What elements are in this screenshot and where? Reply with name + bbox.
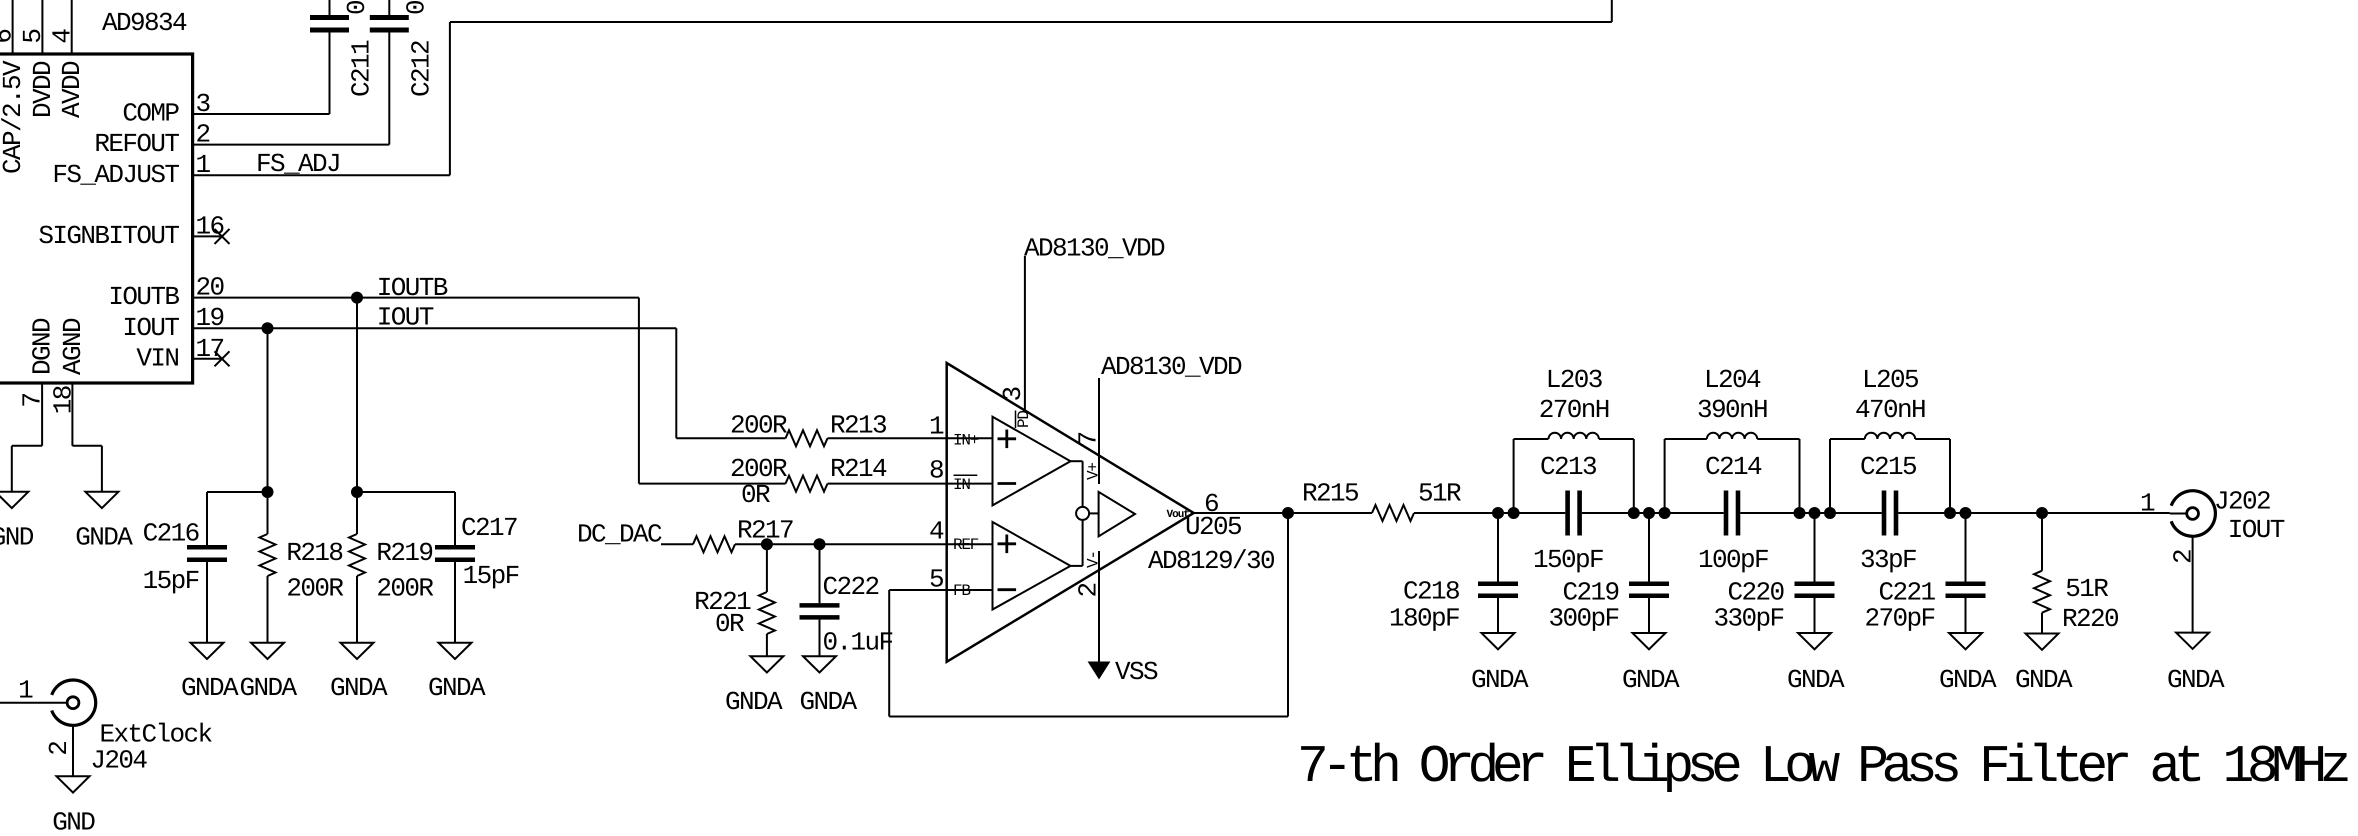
svg-text:IN: IN [953,476,970,494]
svg-text:R215: R215 [1302,479,1358,509]
svg-text:51R: 51R [2065,574,2108,604]
svg-text:IOUT: IOUT [2228,515,2285,545]
svg-text:470nH: 470nH [1855,395,1925,425]
svg-text:C213: C213 [1540,452,1596,482]
svg-text:PD: PD [1015,411,1033,428]
svg-text:6: 6 [0,30,18,44]
svg-text:0.1uF: 0.1uF [342,0,372,15]
svg-text:1: 1 [18,676,33,706]
svg-text:150pF: 150pF [1533,545,1603,575]
svg-text:AD8130_VDD: AD8130_VDD [1101,352,1242,382]
svg-text:U205: U205 [1185,512,1241,542]
svg-text:C214: C214 [1705,452,1762,482]
svg-text:V+: V+ [1085,463,1103,480]
svg-text:2: 2 [1073,583,1103,597]
svg-text:FB: FB [953,582,970,600]
svg-text:GNDA: GNDA [428,673,486,703]
svg-text:GNDA: GNDA [2167,665,2225,695]
svg-text:R217: R217 [737,516,793,546]
svg-text:AGND: AGND [58,318,88,375]
svg-text:IOUT: IOUT [122,313,179,343]
svg-text:VSS: VSS [1115,657,1158,687]
svg-text:GNDA: GNDA [75,523,133,553]
svg-text:33pF: 33pF [1860,545,1916,575]
svg-text:1: 1 [2140,488,2155,518]
svg-text:IOUTB: IOUTB [377,273,448,303]
svg-text:C215: C215 [1860,452,1916,482]
svg-text:5: 5 [18,30,48,44]
svg-text:DVDD: DVDD [28,61,58,118]
svg-text:AD9834: AD9834 [102,8,187,38]
svg-text:4: 4 [48,29,78,44]
svg-text:GNDA: GNDA [1939,665,1997,695]
svg-text:0R: 0R [741,480,770,510]
svg-text:GNDA: GNDA [1622,665,1680,695]
svg-text:GNDA: GNDA [239,673,297,703]
svg-text:15pF: 15pF [463,561,519,591]
svg-text:7-th Order Ellipse Low Pass Fi: 7-th Order Ellipse Low Pass Filter at 18… [1297,737,2348,797]
svg-text:330pF: 330pF [1713,604,1783,634]
svg-text:3: 3 [998,387,1028,401]
svg-text:0.1uF: 0.1uF [823,628,893,658]
svg-text:0R: 0R [715,609,744,639]
svg-text:200R: 200R [376,574,433,604]
svg-text:REF: REF [953,536,979,554]
svg-text:2: 2 [44,742,74,756]
svg-text:C217: C217 [461,513,517,543]
svg-text:VIN: VIN [136,343,178,373]
svg-text:FS_ADJ: FS_ADJ [256,149,340,179]
svg-text:C216: C216 [143,519,199,549]
svg-text:DGND: DGND [28,318,58,375]
svg-text:GNDA: GNDA [2015,665,2073,695]
svg-text:L204: L204 [1704,365,1761,395]
svg-text:C222: C222 [823,572,879,602]
svg-text:R218: R218 [286,538,342,568]
svg-text:COMP: COMP [122,99,179,129]
svg-text:J204: J204 [90,745,147,775]
svg-text:100pF: 100pF [1698,545,1768,575]
svg-text:4: 4 [929,517,944,547]
svg-text:R213: R213 [830,411,886,441]
svg-text:GNDA: GNDA [725,687,783,717]
svg-text:AD8129/30: AD8129/30 [1148,546,1274,576]
svg-text:390nH: 390nH [1697,395,1767,425]
svg-text:R220: R220 [2062,604,2118,634]
svg-text:GNDA: GNDA [1787,665,1845,695]
svg-text:0.1uF: 0.1uF [402,0,432,15]
svg-text:CAP/2.5V: CAP/2.5V [0,60,28,174]
svg-text:DC_DAC: DC_DAC [577,520,662,550]
svg-text:R219: R219 [376,538,432,568]
svg-text:15pF: 15pF [143,566,199,596]
svg-text:300pF: 300pF [1548,604,1618,634]
svg-text:51R: 51R [1418,479,1461,509]
svg-text:C211: C211 [347,40,377,97]
svg-text:GNDA: GNDA [1471,665,1529,695]
svg-text:200R: 200R [286,574,343,604]
svg-text:7: 7 [1074,432,1104,446]
svg-text:C218: C218 [1403,577,1459,607]
svg-text:REFOUT: REFOUT [94,129,179,159]
svg-text:SIGNBITOUT: SIGNBITOUT [38,221,179,251]
svg-text:180pF: 180pF [1389,604,1459,634]
svg-text:270nH: 270nH [1539,395,1609,425]
svg-text:270pF: 270pF [1864,604,1934,634]
svg-text:1: 1 [929,412,944,442]
svg-text:IN+: IN+ [953,432,979,450]
svg-text:C212: C212 [406,41,436,97]
svg-text:FS_ADJUST: FS_ADJUST [52,160,179,190]
svg-text:GND: GND [0,523,34,553]
svg-text:GNDA: GNDA [330,673,388,703]
svg-text:GND: GND [52,807,95,836]
svg-text:IOUT: IOUT [377,303,434,333]
svg-text:J202: J202 [2214,487,2270,517]
svg-text:AVDD: AVDD [57,61,87,118]
svg-text:8: 8 [929,456,943,486]
svg-text:2: 2 [2169,550,2199,564]
svg-text:L205: L205 [1862,365,1918,395]
svg-text:V-: V- [1085,551,1103,568]
svg-text:AD8130_VDD: AD8130_VDD [1024,234,1165,264]
svg-text:R214: R214 [830,454,887,484]
svg-text:18: 18 [49,386,79,414]
svg-text:L203: L203 [1546,365,1602,395]
svg-text:200R: 200R [730,411,787,441]
svg-text:IOUTB: IOUTB [108,282,179,312]
svg-text:GNDA: GNDA [181,673,239,703]
svg-text:GNDA: GNDA [799,687,857,717]
svg-text:7: 7 [18,394,48,408]
